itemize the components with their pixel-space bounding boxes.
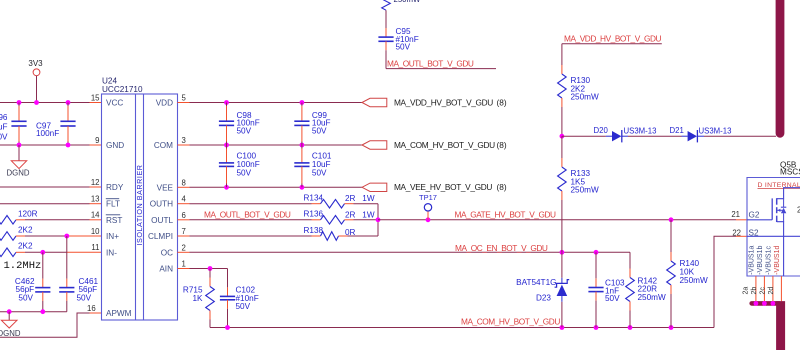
svg-text:1uF: 1uF bbox=[0, 123, 8, 132]
svg-text:COM: COM bbox=[154, 141, 173, 150]
wire APWM pin 16 bbox=[90, 312, 102, 314]
wire S2 return to COM rail bbox=[714, 236, 736, 327]
svg-text:VDD: VDD bbox=[156, 99, 173, 108]
node AIN junction bbox=[208, 266, 213, 271]
svg-text:22: 22 bbox=[732, 228, 741, 237]
wire RDY row pin 12 bbox=[0, 186, 90, 188]
svg-text:2: 2 bbox=[182, 243, 186, 252]
wire VCC rail bbox=[0, 102, 90, 104]
svg-text:MA_VEE_HV_BOT_V_GDU: MA_VEE_HV_BOT_V_GDU bbox=[394, 182, 492, 192]
svg-text:50V: 50V bbox=[312, 169, 327, 178]
pin stub VCC pin 15 bbox=[90, 102, 102, 104]
svg-text:MA_VDD_HV_BOT_V_GDU: MA_VDD_HV_BOT_V_GDU bbox=[564, 34, 661, 44]
resistor R142 220R 250mW bbox=[629, 252, 631, 268]
svg-text:7: 7 bbox=[182, 227, 186, 236]
pin stubs 2a-2d bbox=[755, 276, 757, 301]
svg-text:MA_COM_HV_BOT_V_GDU: MA_COM_HV_BOT_V_GDU bbox=[394, 140, 495, 150]
ground DGND upper bbox=[18, 145, 20, 161]
node COM rail junctions bbox=[225, 325, 230, 330]
mosfet drain lead bbox=[777, 188, 800, 199]
svg-text:R136: R136 bbox=[304, 210, 324, 219]
wire MA_GATE row to Q5B bbox=[378, 219, 736, 221]
bus -VBUS bottom vertical bar bbox=[776, 301, 785, 350]
svg-text:11: 11 bbox=[91, 243, 99, 252]
test point TP17 bbox=[427, 211, 429, 220]
svg-text:50V: 50V bbox=[77, 293, 92, 302]
mosfet body diode bbox=[783, 199, 785, 208]
node IN- junction bbox=[40, 250, 45, 255]
svg-text:MA_OUTL_BOT_V_GDU: MA_OUTL_BOT_V_GDU bbox=[387, 59, 474, 69]
svg-text:-VBUS1c: -VBUS1c bbox=[765, 246, 772, 275]
resistor R138 0R bbox=[321, 232, 339, 241]
svg-text:FLT: FLT bbox=[106, 200, 120, 209]
node rail junctions bbox=[7, 309, 12, 314]
transistor Q5B MSCSM70 module body bbox=[747, 178, 800, 277]
svg-text:50V: 50V bbox=[0, 132, 8, 141]
wire joining resistor outputs bbox=[377, 204, 379, 236]
svg-text:50V: 50V bbox=[396, 43, 411, 52]
svg-text:250mW: 250mW bbox=[680, 276, 708, 285]
svg-text:8: 8 bbox=[182, 178, 186, 187]
capacitor C461 bbox=[66, 236, 68, 279]
wire lower left DGND rail bbox=[0, 311, 67, 313]
resistor R140 10K 250mW bbox=[670, 220, 672, 252]
svg-text:R138: R138 bbox=[304, 226, 324, 235]
svg-text:C96: C96 bbox=[0, 113, 8, 122]
capacitor C96 bbox=[18, 103, 20, 107]
op-amp U24 UCC21710 gate driver body bbox=[102, 94, 178, 320]
resistor 2K2 on IN+ row bbox=[0, 232, 16, 241]
svg-text:2c: 2c bbox=[760, 287, 767, 295]
resistor R130 2K2 250mW bbox=[561, 44, 563, 65]
svg-text:12: 12 bbox=[91, 178, 100, 187]
svg-text:US3M-13: US3M-13 bbox=[624, 127, 657, 136]
svg-text:OUTH: OUTH bbox=[150, 200, 173, 209]
mosfet internal gate lead bbox=[747, 219, 772, 221]
resistor partial at top edge bbox=[382, 0, 391, 10]
svg-text:3: 3 bbox=[182, 136, 186, 145]
svg-text:DGND: DGND bbox=[0, 329, 21, 338]
mosfet source lead bbox=[777, 222, 784, 276]
diode D23 BAT54T1G bbox=[561, 252, 563, 277]
svg-text:IN+: IN+ bbox=[106, 232, 119, 241]
node bus junctions bbox=[754, 301, 759, 306]
node desat junction bbox=[560, 134, 565, 139]
mosfet body arrow bbox=[777, 209, 784, 211]
svg-text:APWM: APWM bbox=[106, 309, 132, 318]
connector arrow MA_VEE bbox=[362, 183, 387, 191]
svg-text:BAT54T1G: BAT54T1G bbox=[516, 278, 556, 287]
ground DGND lower bbox=[8, 312, 10, 321]
svg-text:9: 9 bbox=[95, 136, 99, 145]
svg-text:R134: R134 bbox=[304, 193, 324, 202]
resistor R136 2R 1W bbox=[321, 216, 345, 225]
diode D20 US3M-13 bbox=[606, 135, 612, 137]
resistor R133 1K5 250mW bbox=[561, 136, 563, 158]
svg-text:100nF: 100nF bbox=[36, 129, 59, 138]
mosfet S2 internal lead bbox=[747, 235, 800, 237]
svg-text:MSCSM: MSCSM bbox=[780, 167, 800, 176]
svg-text:120R: 120R bbox=[18, 209, 38, 218]
node TP17 junction bbox=[426, 217, 431, 222]
svg-text:4: 4 bbox=[182, 195, 187, 204]
bus -VBUS top right vertical bar bbox=[776, 0, 785, 133]
connector arrow MA_COM bbox=[362, 141, 387, 149]
capacitor C103 bbox=[595, 252, 597, 278]
svg-text:MA_OUTL_BOT_V_GDU: MA_OUTL_BOT_V_GDU bbox=[204, 209, 291, 219]
svg-text:2K2: 2K2 bbox=[18, 225, 33, 234]
capacitor C100 bbox=[226, 145, 228, 149]
wire 3V3 to VCC rail bbox=[36, 76, 38, 103]
resistor 120R on RST row bbox=[0, 216, 16, 225]
svg-text:-VBUS1b: -VBUS1b bbox=[757, 246, 764, 275]
wire FLT row pin 13 bbox=[0, 203, 90, 205]
svg-text:250mW: 250mW bbox=[571, 93, 599, 102]
svg-text:5: 5 bbox=[182, 93, 187, 102]
wire GND rail bbox=[0, 144, 90, 146]
svg-text:D20: D20 bbox=[594, 126, 609, 135]
svg-text:D21: D21 bbox=[670, 126, 684, 135]
svg-text:2K2: 2K2 bbox=[18, 242, 33, 251]
node gate junction bbox=[376, 217, 381, 222]
svg-text:IN-: IN- bbox=[106, 248, 117, 257]
svg-text:13: 13 bbox=[91, 194, 100, 203]
svg-text:OC: OC bbox=[161, 248, 173, 257]
svg-text:15: 15 bbox=[91, 93, 100, 102]
svg-text:TP17: TP17 bbox=[419, 193, 437, 202]
wire RST row pin 14 bbox=[16, 219, 25, 221]
svg-text:250mW: 250mW bbox=[638, 293, 666, 302]
resistor 2K2 on IN- row bbox=[0, 248, 16, 257]
pin stub GND pin 9 bbox=[90, 144, 102, 146]
svg-text:1: 1 bbox=[182, 260, 186, 269]
node VCC junctions bbox=[17, 100, 22, 105]
node GND junctions bbox=[17, 143, 22, 148]
svg-text:MA_VDD_HV_BOT_V_GDU: MA_VDD_HV_BOT_V_GDU bbox=[394, 97, 493, 107]
svg-text:G2: G2 bbox=[749, 211, 760, 220]
svg-text:21: 21 bbox=[731, 210, 740, 219]
svg-text:2b: 2b bbox=[751, 287, 758, 295]
svg-text:OUTL: OUTL bbox=[151, 216, 173, 225]
capacitor C101 bbox=[301, 145, 303, 149]
svg-text:16: 16 bbox=[87, 304, 96, 313]
wire COM row pin 3 bbox=[178, 144, 190, 146]
svg-text:50V: 50V bbox=[312, 126, 327, 135]
svg-text:CLMPI: CLMPI bbox=[148, 232, 173, 241]
mosfet channel segments bbox=[776, 198, 778, 205]
svg-text:2R: 2R bbox=[345, 210, 356, 219]
wire diode row to bus bbox=[704, 135, 776, 137]
wire MA_COM bottom rail bbox=[210, 327, 714, 329]
node R140 junction on gate row bbox=[669, 217, 674, 222]
svg-text:UCC21710: UCC21710 bbox=[102, 85, 143, 94]
svg-text:MA_OC_EN_BOT_V_GDU: MA_OC_EN_BOT_V_GDU bbox=[455, 243, 548, 253]
connector arrow MA_VDD bbox=[362, 98, 387, 106]
svg-text:50V: 50V bbox=[18, 293, 33, 302]
svg-text:10: 10 bbox=[91, 227, 100, 236]
svg-text:1K: 1K bbox=[192, 294, 203, 303]
svg-text:1W: 1W bbox=[362, 194, 375, 203]
svg-text:250mW: 250mW bbox=[571, 186, 599, 195]
svg-text:D23: D23 bbox=[536, 294, 551, 303]
svg-text:2a: 2a bbox=[743, 287, 750, 295]
wire VDD row pin 5 bbox=[178, 102, 190, 104]
bus -VBUS bottom horizontal bar bbox=[752, 301, 779, 306]
wire between diodes bbox=[628, 135, 682, 137]
resistor R715 1K bbox=[209, 269, 211, 278]
svg-text:RST: RST bbox=[106, 216, 122, 225]
isolation barrier lines bbox=[135, 94, 137, 320]
svg-text:MA_GATE_HV_BOT_V_GDU: MA_GATE_HV_BOT_V_GDU bbox=[455, 210, 557, 220]
svg-text:50V: 50V bbox=[237, 169, 252, 178]
wire OUTL row pin 6 bbox=[178, 219, 190, 221]
svg-text:50V: 50V bbox=[236, 302, 251, 311]
capacitor C102 bbox=[227, 269, 229, 288]
capacitor C97 bbox=[67, 103, 69, 107]
svg-text:3V3: 3V3 bbox=[28, 59, 43, 68]
svg-text:1.2MHz: 1.2MHz bbox=[4, 260, 42, 272]
svg-text:US3M-13: US3M-13 bbox=[699, 127, 732, 136]
wire MA_OUTL stub top bbox=[386, 68, 496, 70]
node IN+ junction bbox=[64, 234, 69, 239]
wire IN- row pin 11 bbox=[16, 251, 25, 253]
svg-text:14: 14 bbox=[91, 211, 100, 220]
wire MA_VDD stub top right bbox=[562, 43, 662, 45]
svg-text:250mW: 250mW bbox=[394, 0, 422, 4]
svg-text:2R: 2R bbox=[345, 194, 356, 203]
svg-text:GND: GND bbox=[106, 141, 124, 150]
wire AIN row pin 1 bbox=[178, 268, 190, 270]
svg-text:(8): (8) bbox=[497, 182, 507, 192]
wire VEE row pin 8 bbox=[178, 186, 190, 188]
svg-text:(8): (8) bbox=[497, 97, 507, 107]
capacitor C98 bbox=[226, 103, 228, 107]
capacitor C462 bbox=[42, 252, 44, 278]
wire OUTH row pin 4 bbox=[178, 203, 190, 205]
svg-text:-VBUS1d: -VBUS1d bbox=[774, 246, 781, 275]
wire desat diode row bbox=[562, 135, 606, 137]
svg-text:MA_COM_HV_BOT_V_GDU: MA_COM_HV_BOT_V_GDU bbox=[461, 317, 560, 327]
svg-text:1W: 1W bbox=[362, 210, 375, 219]
capacitor C95 bbox=[385, 10, 387, 28]
node OC junctions bbox=[560, 250, 565, 255]
diode D21 US3M-13 bbox=[682, 135, 688, 137]
svg-text:50V: 50V bbox=[605, 294, 620, 303]
power symbol 3V3 bbox=[33, 69, 40, 76]
svg-text:RDY: RDY bbox=[106, 183, 124, 192]
svg-text:50V: 50V bbox=[237, 126, 252, 135]
svg-text:(8): (8) bbox=[497, 140, 507, 150]
resistor R134 2R 1W bbox=[321, 199, 345, 208]
wire OC row pin 2 bbox=[178, 251, 190, 253]
wire CLMPI row pin 7 bbox=[178, 235, 190, 237]
svg-text:6: 6 bbox=[182, 211, 186, 220]
wire IN+ row pin 10 bbox=[16, 235, 25, 237]
svg-text:DGND: DGND bbox=[7, 169, 30, 178]
capacitor C99 bbox=[301, 103, 303, 107]
svg-text:ISOLATION BARRIER: ISOLATION BARRIER bbox=[135, 164, 144, 245]
svg-text:-VBUS1a: -VBUS1a bbox=[748, 246, 755, 275]
svg-text:AIN: AIN bbox=[159, 265, 173, 274]
svg-text:VCC: VCC bbox=[106, 99, 123, 108]
svg-text:2d: 2d bbox=[768, 287, 775, 295]
svg-text:VEE: VEE bbox=[157, 183, 174, 192]
